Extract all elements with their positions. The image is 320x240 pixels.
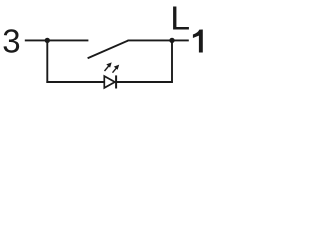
- terminal label 1: [193, 30, 203, 53]
- svg-text:3: 3: [2, 22, 20, 59]
- node A (left junction dot): [45, 38, 50, 43]
- svg-text:L: L: [170, 0, 190, 37]
- LED light arrow 1: [105, 62, 112, 71]
- wire from switch to right node and terminal 1: [128, 39, 189, 41]
- wire from terminal 3 to left node: [25, 39, 89, 41]
- wire left vertical drop: [46, 40, 48, 83]
- LED light arrow 2: [113, 65, 120, 73]
- switch S1 blade (open): [88, 41, 128, 59]
- LED D1 triangle (anode): [104, 76, 115, 88]
- wire bottom left segment to LED anode: [46, 81, 104, 83]
- LED D1 cathode bar: [115, 75, 117, 88]
- wire right vertical drop: [171, 40, 173, 83]
- wire bottom right segment from LED cathode: [116, 81, 173, 83]
- node B (right junction dot): [169, 38, 174, 43]
